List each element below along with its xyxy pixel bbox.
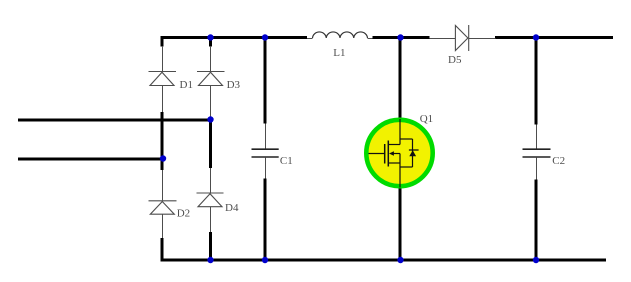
svg-text:D4: D4 [225,202,239,214]
svg-text:D3: D3 [227,79,241,91]
svg-text:D2: D2 [177,208,190,220]
svg-text:L1: L1 [333,47,345,59]
svg-text:D5: D5 [448,54,462,66]
svg-text:C2: C2 [552,155,565,167]
svg-text:Q1: Q1 [420,113,433,125]
svg-text:C1: C1 [280,155,293,167]
svg-text:D1: D1 [180,79,193,91]
